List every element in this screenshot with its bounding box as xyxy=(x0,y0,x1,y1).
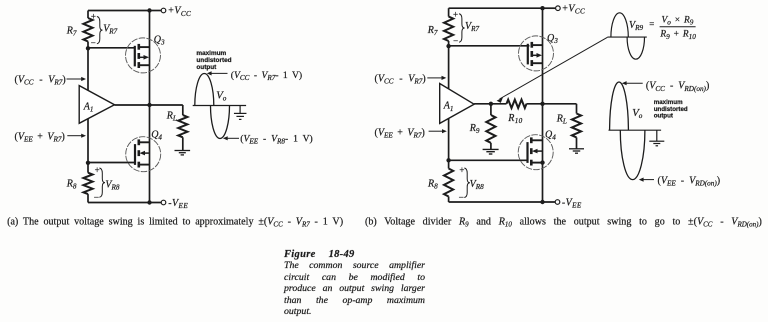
svg-text:(VEE + VR7): (VEE + VR7) xyxy=(15,131,65,143)
svg-text:VR7: VR7 xyxy=(465,21,479,33)
svg-text:maximum: maximum xyxy=(196,50,226,57)
svg-text:+VCC: +VCC xyxy=(168,6,191,18)
svg-text:(VCC - VR7): (VCC - VR7) xyxy=(15,74,66,86)
svg-text:undistorted: undistorted xyxy=(196,57,231,64)
svg-text:-VEE: -VEE xyxy=(562,197,582,209)
svg-text:Q4: Q4 xyxy=(151,130,162,142)
svg-text:Q4: Q4 xyxy=(545,129,556,141)
svg-text:R8: R8 xyxy=(427,179,438,191)
svg-text:–: – xyxy=(453,36,459,45)
svg-text:+: + xyxy=(459,165,464,175)
svg-text:output: output xyxy=(654,113,673,120)
svg-text:–: – xyxy=(93,191,99,201)
svg-text:VR8: VR8 xyxy=(470,179,484,191)
svg-text:(VEE + VR7): (VEE + VR7) xyxy=(375,127,425,139)
svg-text:(VCC - VRD(on)): (VCC - VRD(on)) xyxy=(646,81,709,93)
svg-text:VR8: VR8 xyxy=(105,179,119,191)
svg-text:R10: R10 xyxy=(507,113,522,125)
svg-text:+: + xyxy=(91,12,96,22)
svg-text:Vo × R9: Vo × R9 xyxy=(662,15,694,26)
svg-text:Q3: Q3 xyxy=(547,33,558,45)
svg-text:+: + xyxy=(95,165,100,175)
svg-text:R9: R9 xyxy=(469,123,480,135)
svg-text:(VCC - VR7- 1 V): (VCC - VR7- 1 V) xyxy=(231,70,302,82)
svg-text:Q3: Q3 xyxy=(154,35,165,47)
svg-text:(VEE - VR8- 1 V): (VEE - VR8- 1 V) xyxy=(240,133,312,145)
svg-text:VR9: VR9 xyxy=(629,20,643,32)
svg-text:output: output xyxy=(196,64,217,71)
svg-text:(a) The output voltage swing: (a) The output voltage swing is limited … xyxy=(7,217,343,229)
svg-text:VR7: VR7 xyxy=(103,24,117,36)
svg-text:R7: R7 xyxy=(66,26,77,38)
svg-text:+: + xyxy=(453,10,458,20)
svg-text:R9 + R10: R9 + R10 xyxy=(659,30,696,41)
svg-text:R8: R8 xyxy=(66,178,77,190)
svg-text:R7: R7 xyxy=(427,25,438,37)
svg-text:(VEE - VRD(on)): (VEE - VRD(on)) xyxy=(658,175,721,187)
svg-text:(VCC - VR7): (VCC - VR7) xyxy=(375,73,426,85)
svg-text:RL: RL xyxy=(556,113,567,125)
svg-text:Vo: Vo xyxy=(632,107,643,120)
svg-text:RL: RL xyxy=(166,110,177,122)
svg-text:+VCC: +VCC xyxy=(562,3,585,15)
svg-text:–: – xyxy=(90,37,96,46)
svg-text:–: – xyxy=(458,191,464,201)
svg-text:=: = xyxy=(649,19,654,29)
svg-text:Vo: Vo xyxy=(216,89,227,102)
svg-text:(b) Voltage divider R9 and R1: (b) Voltage divider R9 and R10 allows th… xyxy=(365,216,762,228)
svg-text:-VEE: -VEE xyxy=(168,198,188,210)
